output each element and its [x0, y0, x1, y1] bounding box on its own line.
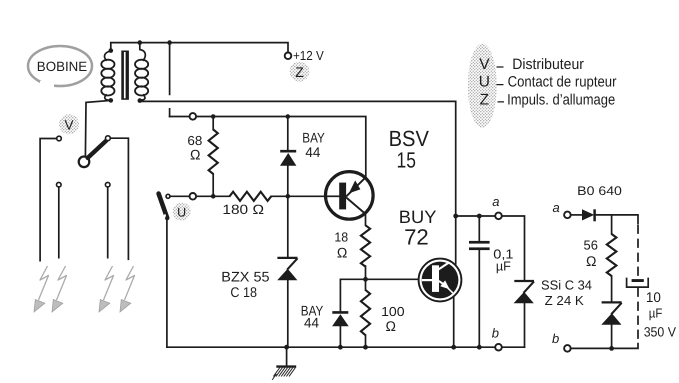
- label 56 ohm: [584, 238, 598, 269]
- svg-text:Ω: Ω: [386, 318, 396, 334]
- distributor contact 4: [105, 182, 110, 187]
- diode D1 BAY 44: [280, 151, 296, 166]
- svg-text:Contact de rupteur: Contact de rupteur: [508, 73, 617, 90]
- connector circle on emitter rail: [190, 113, 197, 120]
- diode BAY44 upper branch wire: [287, 117, 289, 258]
- wire U lever to ground rail: [166, 220, 168, 347]
- resistor 100 ohm: [361, 290, 370, 347]
- svg-text:BZX 55: BZX 55: [221, 268, 270, 284]
- node primary top: [109, 48, 114, 53]
- svg-text:18: 18: [334, 229, 348, 244]
- resistor 56 ohm: [607, 215, 617, 303]
- distributor rotor pivot: [79, 157, 90, 168]
- svg-text:V: V: [64, 118, 73, 133]
- distributor contact 3: [57, 182, 62, 187]
- node BAY44 top: [286, 114, 291, 119]
- transformer T1 core: [121, 51, 129, 100]
- svg-text:a: a: [492, 194, 499, 209]
- distributor rotor arm: [88, 141, 107, 158]
- label 18 ohm: [334, 229, 348, 260]
- wire BUY72 emitter to ground rail: [453, 297, 455, 348]
- transformer T1 primary coil: [101, 51, 114, 100]
- label BZX 55 C 18: [221, 268, 270, 300]
- label 10 uF 350 V: [644, 289, 676, 340]
- node BUY72 emitter bottom: [451, 345, 456, 350]
- label BSV 15: [389, 126, 430, 173]
- wire contact 4 to spark gap 3: [107, 187, 109, 258]
- svg-text:Ω: Ω: [190, 147, 200, 163]
- svg-text:44: 44: [305, 144, 320, 160]
- node BUY72 collector branch: [453, 214, 458, 219]
- wire base row (180 ohm row): [170, 195, 326, 197]
- resistor 180 ohm: [230, 192, 272, 201]
- spark gap arrow 4: [120, 266, 135, 312]
- connector circle on base row: [190, 193, 197, 200]
- svg-text:Impuls. d’allumage: Impuls. d’allumage: [507, 92, 615, 109]
- transformer T1 secondary coil: [135, 43, 148, 101]
- terminal b: [495, 344, 502, 351]
- svg-text:SSi C 34: SSi C 34: [541, 278, 592, 293]
- svg-text:µF: µF: [496, 258, 511, 273]
- wire contact 2 to spark gap 4: [110, 138, 128, 259]
- wire contact 3 to spark gap 2: [58, 187, 60, 258]
- wire primary bottom to distributor pivot: [85, 100, 110, 156]
- label 0,1 uF: [493, 247, 513, 274]
- capacitor C1 0,1 uF: [469, 216, 490, 347]
- contact breaker U lever: [159, 194, 168, 221]
- diode D4 BO 640: [571, 209, 638, 223]
- svg-text:U: U: [177, 205, 186, 219]
- node primary bottom: [109, 98, 114, 103]
- svg-text:a: a: [553, 200, 560, 215]
- transistor Q2 BUY72: [419, 259, 462, 302]
- node U (breaker): [173, 203, 191, 221]
- wire crossover vertical from top rail: [169, 43, 171, 117]
- svg-text:180 Ω: 180 Ω: [222, 202, 264, 217]
- node 68 ohm top: [211, 114, 216, 119]
- svg-text:350 V: 350 V: [644, 325, 676, 340]
- coil label BOBINE oval: [28, 46, 92, 90]
- ground: [272, 347, 296, 380]
- svg-text:U: U: [479, 73, 490, 90]
- label 68 ohm: [187, 133, 202, 163]
- node base junction of BUY72: [363, 277, 368, 282]
- label BAY 44 (D1): [302, 130, 325, 160]
- svg-text:BOBINE: BOBINE: [37, 59, 87, 74]
- svg-text:Z 24 K: Z 24 K: [545, 293, 585, 308]
- label 100 ohm: [381, 304, 405, 334]
- legend oval V U Z: [468, 44, 497, 128]
- node Z (impulse): [290, 62, 310, 82]
- node capacitor bottom: [477, 345, 482, 350]
- distributor contact 1: [57, 136, 62, 141]
- transistor Q1 BSV15: [326, 172, 374, 220]
- node secondary bottom: [138, 98, 143, 103]
- svg-text:56: 56: [584, 238, 598, 253]
- svg-text:b: b: [552, 331, 559, 346]
- terminal a (right network): [564, 212, 571, 219]
- zener D3 SSi C34 Z24K: [514, 281, 534, 347]
- spark gap arrow 3: [99, 266, 114, 312]
- svg-text:72: 72: [404, 225, 429, 250]
- svg-text:Distributeur: Distributeur: [512, 56, 584, 73]
- zener D5 (right network): [601, 302, 621, 348]
- terminal a: [495, 213, 502, 220]
- label BUY 72: [399, 207, 437, 249]
- svg-text:µF: µF: [649, 306, 663, 321]
- terminal +12 V: [285, 53, 292, 60]
- node V (distributor): [59, 114, 79, 134]
- svg-text:Z: Z: [295, 64, 304, 80]
- wire dashed to 10uF capacitor: [637, 226, 639, 343]
- contact breaker U fixed contact: [166, 194, 170, 198]
- spark gap arrow 2: [52, 266, 67, 312]
- node secondary top: [138, 40, 143, 45]
- svg-text:+12 V: +12 V: [293, 48, 324, 63]
- svg-text:44: 44: [304, 315, 319, 331]
- wire contact 1 to spark gap 1: [40, 139, 57, 261]
- svg-text:Ω: Ω: [586, 253, 596, 269]
- capacitor C2 10uF 350V: [627, 278, 649, 288]
- node BAY44 D2 bottom: [338, 345, 343, 350]
- spark gap arrow 1: [34, 266, 49, 312]
- wire b row (right network): [571, 344, 638, 349]
- svg-text:V: V: [479, 56, 490, 73]
- wire coil-bottom rail to BUY72 collector: [140, 101, 456, 264]
- wire BUY72 base row: [340, 279, 421, 312]
- node top rail branch: [167, 40, 172, 45]
- terminal b (right network): [564, 345, 571, 352]
- resistor 18 ohm: [361, 214, 370, 290]
- label BAY 44 (D2): [301, 303, 324, 331]
- svg-text:100: 100: [381, 304, 405, 319]
- svg-text:Ω: Ω: [337, 244, 347, 260]
- svg-text:C 18: C 18: [230, 284, 257, 300]
- wire +12V top rail: [111, 43, 288, 53]
- wire emitter rail to BSV15: [170, 117, 366, 178]
- svg-text:Z: Z: [480, 92, 489, 109]
- node capacitor branch top: [477, 214, 482, 219]
- legend dashes: [497, 67, 505, 102]
- node 68 ohm bottom: [211, 194, 216, 199]
- resistor 68 ohm: [209, 117, 218, 197]
- label SSi C 34 Z 24 K: [541, 278, 592, 308]
- distributor contact 2 (rotor tip): [106, 136, 111, 141]
- zener BZX 55 C 18: [277, 258, 297, 347]
- node ground junction: [284, 345, 289, 350]
- node 180 ohm / BAY44 junction: [286, 194, 291, 199]
- diode D2 BAY 44: [332, 312, 349, 347]
- node 100 ohm bottom: [363, 345, 368, 350]
- wire ground rail: [167, 346, 525, 348]
- svg-text:b: b: [492, 325, 499, 340]
- svg-text:10: 10: [646, 289, 661, 305]
- node zener bottom (right network): [609, 346, 614, 351]
- wire output row to terminal a: [456, 216, 525, 281]
- svg-text:B0 640: B0 640: [577, 184, 622, 198]
- svg-text:15: 15: [397, 147, 416, 172]
